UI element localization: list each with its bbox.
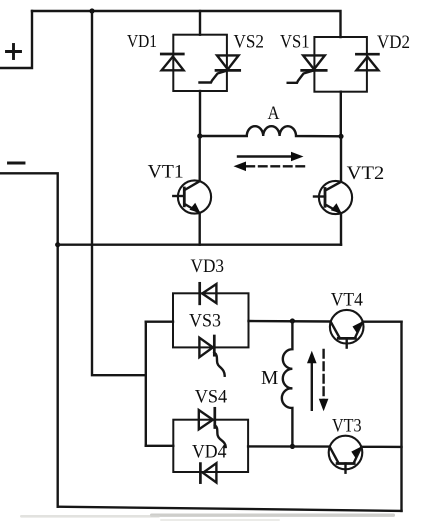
svg-text:VT1: VT1 xyxy=(148,162,184,183)
inductor A with connecting wire xyxy=(200,126,341,136)
svg-text:VS2: VS2 xyxy=(234,32,265,53)
svg-text:VT2: VT2 xyxy=(347,163,385,184)
node junction A-wire left xyxy=(197,133,202,138)
svg-text:VD3: VD3 xyxy=(191,256,225,277)
wire VS4 block right to VT3 xyxy=(248,445,330,448)
svg-text:VS1: VS1 xyxy=(280,32,310,53)
left block frame (VD1/VS2) xyxy=(173,35,227,91)
wire to VS3 block left xyxy=(146,321,173,323)
wire - terminal lead and left rail xyxy=(0,173,58,506)
arrow dashed down (motor reverse) xyxy=(319,350,329,411)
svg-text:M: M xyxy=(261,367,278,389)
wire + terminal lead xyxy=(0,11,32,68)
diode VD1 xyxy=(161,54,183,70)
wire VT4 emitter to right rail xyxy=(363,321,402,323)
wire top rail from + branch to right block xyxy=(32,11,341,37)
thyristor VS3 xyxy=(199,336,224,376)
diode VD3 xyxy=(200,283,217,304)
svg-text:VS4: VS4 xyxy=(195,386,228,407)
transistor VT4 xyxy=(330,310,364,348)
thyristor VS4 xyxy=(199,408,226,447)
node junction motor bottom xyxy=(290,444,295,449)
wire mid rail y=244.7 xyxy=(58,243,341,245)
svg-text:VS3: VS3 xyxy=(189,311,221,332)
node junction motor top xyxy=(290,318,295,323)
wire stub top rail to left block xyxy=(199,11,201,35)
node junction A-wire right xyxy=(338,134,343,139)
transistor VT1 xyxy=(173,136,211,245)
svg-text:A: A xyxy=(268,103,280,124)
arrow solid up (motor current) xyxy=(307,351,317,410)
thyristor VS1 xyxy=(288,55,327,82)
wire right rail xyxy=(400,322,402,511)
svg-text:VD1: VD1 xyxy=(127,31,157,51)
wire bottom rail xyxy=(58,507,402,511)
right block frame (VS1/VD2) xyxy=(314,37,367,92)
arrow dashed left (reverse direction) xyxy=(234,162,305,172)
transistor VT3 xyxy=(329,436,363,473)
diode VD4 xyxy=(200,463,216,482)
svg-text:VD4: VD4 xyxy=(192,442,227,463)
transistor VT2 xyxy=(314,136,352,244)
minus sign xyxy=(9,162,25,165)
wire right block bottom stub xyxy=(340,92,342,137)
wire to VS4 block left xyxy=(146,445,174,447)
motor M winding xyxy=(282,321,293,446)
wire VT3 emitter to right rail xyxy=(362,446,402,449)
thyristor VS2 xyxy=(200,55,240,82)
wire lower-left link bus x=145.8 xyxy=(145,322,147,446)
svg-text:VT3: VT3 xyxy=(332,416,362,437)
svg-text:VT4: VT4 xyxy=(331,290,363,311)
diode VD2 xyxy=(356,54,378,70)
wire vertical bus x=92 down to lower section xyxy=(92,11,146,375)
node junction top rail x=92 xyxy=(89,8,94,13)
block frame VD3/VS3 xyxy=(173,293,249,347)
node junction left rail y=244.7 xyxy=(55,242,60,247)
arrow solid right (current direction) xyxy=(238,152,304,162)
plus sign xyxy=(7,45,21,59)
scan artifact bottom band xyxy=(150,514,395,517)
wire left block bottom stub xyxy=(199,91,201,136)
wire VS3 block right to VT4 xyxy=(249,320,331,323)
block frame VS4/VD4 xyxy=(173,420,248,472)
svg-text:VD2: VD2 xyxy=(377,32,410,53)
